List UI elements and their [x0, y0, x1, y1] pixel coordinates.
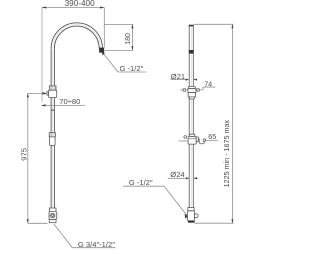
svg-text:390-400: 390-400 — [65, 0, 95, 8]
svg-text:975: 975 — [20, 148, 29, 161]
svg-text:180: 180 — [125, 33, 132, 45]
svg-text:74: 74 — [204, 79, 212, 88]
svg-text:1225 min - 1675 max: 1225 min - 1675 max — [222, 119, 231, 187]
svg-text:G 3/4″-1/2″: G 3/4″-1/2″ — [78, 240, 115, 249]
svg-text:Ø24: Ø24 — [170, 170, 184, 179]
svg-text:G -1/2″: G -1/2″ — [129, 178, 153, 187]
svg-text:70÷80: 70÷80 — [59, 97, 80, 106]
svg-text:G -1/2″: G -1/2″ — [120, 64, 144, 73]
svg-text:Ø21: Ø21 — [171, 72, 185, 81]
svg-text:65: 65 — [208, 132, 216, 141]
